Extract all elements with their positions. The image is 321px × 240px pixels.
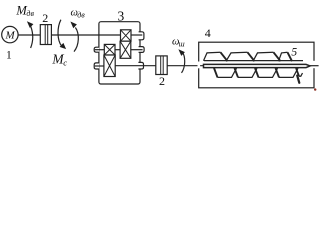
wire input shaft inside gearbox — [99, 34, 121, 36]
bearing stub left output shaft — [94, 63, 99, 69]
svg-text:дв: дв — [26, 9, 34, 18]
arrow Mdv (driving torque rotation arc) — [27, 21, 34, 48]
gear G2 intermediate wheel — [120, 41, 131, 58]
gearbox housing U1 (two-stage reducer, item 3) — [99, 22, 140, 84]
bearing stub right output shaft — [138, 62, 143, 69]
svg-text:1: 1 — [6, 49, 12, 61]
gear G3 intermediate pinion — [104, 44, 115, 55]
label Mdv — [15, 3, 34, 18]
label omega-sh — [172, 37, 185, 49]
svg-text:дв: дв — [77, 11, 85, 20]
bearing stub left intermediate shaft — [94, 47, 99, 52]
wire shaft motor to coupling — [18, 34, 40, 36]
svg-text:3: 3 — [118, 9, 125, 24]
housing of screw conveyor (item 4) — [198, 42, 316, 88]
svg-text:M: M — [5, 30, 16, 42]
arrow omega-sh (screw speed rotation arc) — [178, 49, 185, 73]
screw flight lower 3 — [255, 68, 278, 77]
screw flight lower 4 — [276, 68, 299, 77]
label omega-dv — [71, 8, 86, 20]
svg-text:2: 2 — [42, 11, 48, 25]
wire output shaft — [95, 65, 104, 67]
arrow Mc (load torque arc) — [58, 20, 66, 49]
screw shaft bar — [204, 64, 319, 67]
coupling C2 (screw coupling, item 2) — [156, 56, 167, 75]
svg-text:5: 5 — [291, 47, 297, 59]
red speck artifact — [314, 88, 316, 90]
bearing stub right input shaft — [139, 32, 144, 40]
screw flight upper 4 — [279, 52, 293, 61]
screw flight upper 2 — [226, 52, 255, 61]
svg-text:ш: ш — [179, 40, 185, 49]
svg-text:4: 4 — [205, 26, 211, 40]
wire intermediate shaft — [95, 49, 105, 51]
screw flight lower 1 — [214, 68, 237, 77]
screw flight lower 5 partial — [296, 68, 303, 83]
coupling C1 (motor coupling, item 2) — [40, 25, 51, 45]
svg-text:c: c — [63, 58, 67, 68]
label Mc — [51, 51, 67, 67]
gear G1 input pinion — [121, 30, 132, 41]
screw flight lower 2 — [235, 68, 258, 77]
bearing stub right intermediate shaft — [139, 47, 145, 53]
arrow omega-dv (motor speed rotation arc) — [70, 22, 78, 52]
wire shaft coupling2 to housing — [167, 65, 203, 67]
screw flight upper 1 — [204, 52, 228, 61]
screw upper rim line — [204, 60, 303, 62]
gear G4 output wheel — [104, 55, 115, 77]
wire shaft coupling to gearbox — [51, 34, 99, 36]
screw flight upper 3 — [253, 52, 281, 61]
motor M1 (electric motor) — [2, 26, 18, 42]
svg-text:2: 2 — [159, 74, 165, 88]
